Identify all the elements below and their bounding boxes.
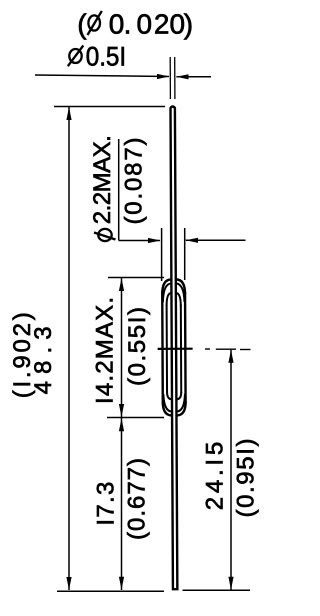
svg-text:(0.55I): (0.55I) <box>124 307 151 386</box>
svg-text:(: ( <box>77 9 87 40</box>
arrow up 17.3 <box>119 418 124 431</box>
blade overlap line at capsule centre <box>158 348 193 350</box>
svg-text:(0.677): (0.677) <box>123 458 150 540</box>
arrow up 48.3 top <box>66 107 71 120</box>
bottom extension line right part <box>183 589 251 591</box>
extension line from capsule left edge up (phi2.2) <box>161 228 163 281</box>
dimension line 24.15 vertical <box>230 350 232 590</box>
capsule bottom dome right arc <box>176 402 185 416</box>
lead wire (top rounded tip to bottom) <box>170 106 177 589</box>
reed blade right wall <box>180 305 182 393</box>
arrow down 14.2 <box>119 404 124 417</box>
svg-text:0.5I: 0.5I <box>86 42 127 72</box>
top extension line (48.3 dim, at lead tip) <box>54 106 165 108</box>
extension line at capsule top (14.2 dim) <box>108 277 164 279</box>
phi2.2 dimension line right part <box>186 239 246 241</box>
text phi2.2MAX. vertical <box>89 135 116 241</box>
arrow down 17.3 <box>119 577 124 590</box>
arrow up 24.15 <box>228 350 233 363</box>
phi2.2 dimension line left horizontal <box>119 240 160 242</box>
arrow down 24.15 <box>228 577 233 590</box>
arrowheads <box>66 74 233 590</box>
extension line from capsule right edge up (phi2.2) <box>184 228 186 280</box>
capsule bottom dome left arc <box>163 402 172 416</box>
phi2.2 leader vertical between texts <box>118 139 120 241</box>
svg-text:24.I5: 24.I5 <box>201 442 228 511</box>
arrow down 48.3 bottom <box>66 577 71 590</box>
arrow right phi2.2 <box>148 238 161 243</box>
dimension line 48.3 vertical <box>68 107 70 591</box>
text phi0.51 label <box>68 42 126 72</box>
svg-text:(0.087): (0.087) <box>121 138 148 225</box>
dimension line 14.2 vertical <box>121 278 123 418</box>
capsule inner glass bottom right arc <box>176 394 185 412</box>
capsule top dome right arc <box>176 279 185 294</box>
svg-text:I4.2MAX.: I4.2MAX. <box>92 297 119 404</box>
arrow left phi0.51 <box>176 74 188 79</box>
reed blade bottom dome left arc <box>167 392 172 399</box>
extension line from lead left edge (phi 0.51) <box>169 57 171 99</box>
extension line from lead right edge (phi 0.51) <box>174 57 176 99</box>
glass capsule outer right wall <box>184 292 187 404</box>
phi symbol of phi2.2MAX <box>94 229 116 241</box>
dimension line phi0.51 right part <box>176 76 211 78</box>
reed blade bottom dome right arc <box>176 392 181 399</box>
dimension line phi0.51 left part <box>35 75 169 77</box>
glass capsule outer left wall <box>161 292 164 404</box>
reed blade top dome left arc <box>167 293 172 306</box>
dimension and extension lines <box>35 75 250 591</box>
centre line (dash-dot) to the right of capsule <box>205 348 251 351</box>
svg-text:0.020): 0.020) <box>109 9 193 40</box>
arrow up 14.2 <box>119 278 124 291</box>
svg-text:2.2MAX.: 2.2MAX. <box>89 135 116 224</box>
capsule top dome left arc <box>162 279 171 294</box>
arrow right phi0.51 <box>157 74 170 79</box>
bottom extension line left part <box>57 590 164 592</box>
extension line at capsule bottom (14.2/17.3 dim) <box>107 417 164 419</box>
phi symbol of phi0.51 <box>68 46 84 67</box>
reed blade left wall <box>166 305 168 393</box>
arrow left phi2.2 <box>186 238 198 243</box>
phi symbol of (phi0.020) <box>88 11 102 35</box>
capsule inner glass top right arc <box>176 283 185 302</box>
dimension line 17.3 vertical <box>121 418 123 590</box>
capsule inner glass top left arc <box>163 284 172 303</box>
svg-text:(0.95I): (0.95I) <box>232 439 259 518</box>
capsule inner glass bottom left arc <box>163 394 172 412</box>
reed switch component (lead wire + glass capsule), slightly tilted <box>156 57 194 589</box>
reed blade top dome right arc <box>176 293 181 306</box>
svg-text:I7.3: I7.3 <box>92 482 119 526</box>
text (phi0.020) top label <box>77 9 193 40</box>
